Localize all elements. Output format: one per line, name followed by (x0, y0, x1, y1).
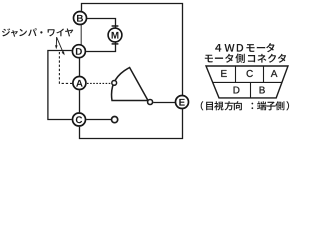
dashed wire A to inverter input (87, 82, 112, 84)
connector table trapezoid outline (206, 66, 288, 98)
wire C bottom to E bottom (80, 109, 183, 138)
jumper dashed wire D area to A (59, 52, 72, 83)
inverter triangle (112, 68, 148, 101)
wire jumper D left down to C left (48, 51, 72, 120)
table cell letter B (260, 87, 265, 94)
table cell letter C (247, 70, 253, 77)
table divider E|C (235, 66, 237, 82)
connector A (73, 77, 86, 90)
inverter input bubble (112, 81, 117, 86)
arrow to dashed jumper (57, 37, 63, 52)
table divider C|A (263, 66, 265, 82)
motor M (108, 28, 122, 42)
wire inverter output to E left (153, 102, 175, 104)
terminal open circle on C stub (112, 117, 118, 123)
wire B bottom to D top (80, 25, 82, 45)
wire B top to E top (82, 4, 183, 96)
label motor-side connector (japanese) (205, 54, 286, 64)
inverter output bubble (148, 100, 153, 105)
table cell letter E (221, 70, 226, 77)
wire A bottom to C top (79, 90, 81, 112)
label jumper wire (japanese) (2, 28, 73, 37)
connector C (73, 113, 86, 126)
table middle divider (212, 81, 282, 83)
wire B right to motor M (87, 19, 116, 28)
connector D (72, 45, 85, 58)
wire C right stub (86, 119, 111, 121)
label 4WD motor (japanese) (215, 43, 274, 52)
table cell letter D (234, 87, 240, 94)
label viewing direction (japanese) (201, 101, 289, 110)
table cell letter A (271, 70, 278, 77)
wire D bottom to A top (79, 58, 81, 76)
connector B (74, 12, 87, 25)
arrow to solid jumper (55, 37, 57, 46)
motor M brush ticks (112, 25, 119, 27)
connector E (176, 96, 189, 109)
table divider D|B (250, 82, 252, 98)
wire M bottom to D right (86, 42, 115, 51)
